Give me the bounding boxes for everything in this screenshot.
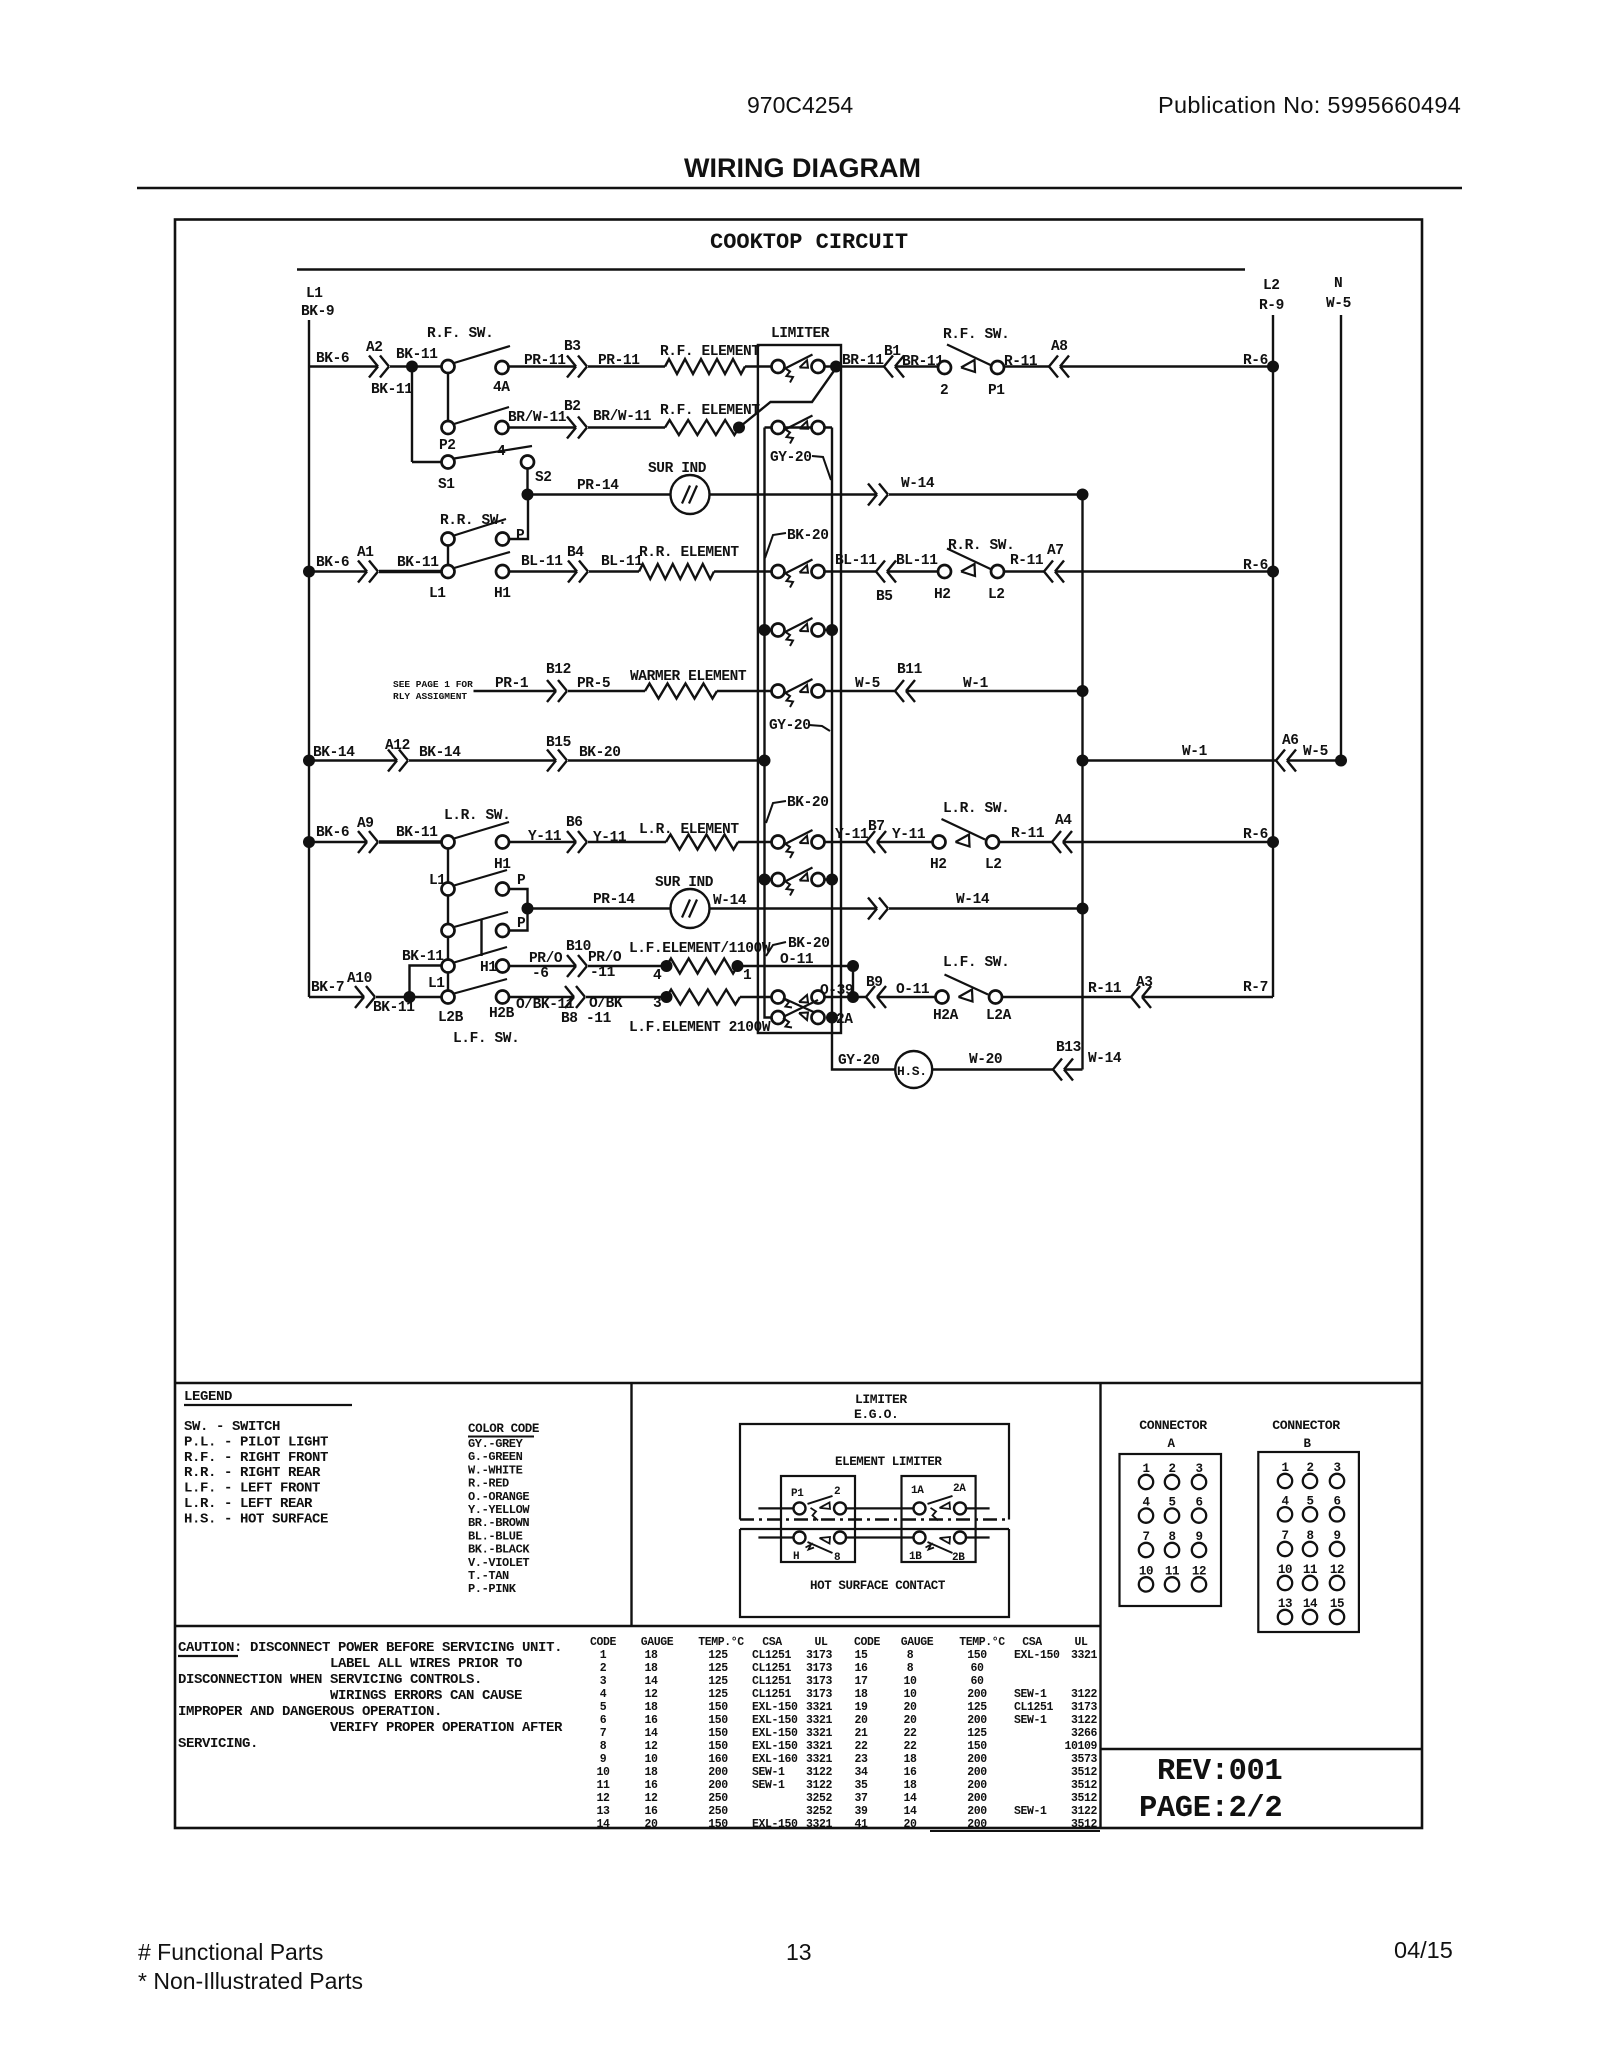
svg-text:1B: 1B bbox=[909, 1551, 922, 1563]
connector A1 bbox=[358, 561, 367, 572]
wire L1 bus bbox=[308, 320, 310, 997]
svg-text:REV:001: REV:001 bbox=[1157, 1755, 1282, 1789]
svg-text:R-11: R-11 bbox=[1010, 553, 1044, 569]
limiter contact row6 bbox=[772, 685, 785, 698]
svg-text:3512: 3512 bbox=[1071, 1818, 1098, 1831]
svg-text:125: 125 bbox=[708, 1662, 728, 1675]
svg-text:R.R. ELEMENT: R.R. ELEMENT bbox=[639, 545, 739, 561]
svg-text:8: 8 bbox=[834, 1552, 841, 1564]
svg-text:B6: B6 bbox=[566, 815, 583, 831]
node row3 / W bus bbox=[1077, 489, 1089, 501]
wire row6 bbox=[474, 690, 557, 692]
svg-text:A7: A7 bbox=[1047, 543, 1064, 559]
gang link bbox=[480, 920, 482, 956]
svg-text:3321: 3321 bbox=[1071, 1649, 1098, 1662]
wire BK-11 link bbox=[410, 966, 442, 998]
svg-text:V.-VIOLET: V.-VIOLET bbox=[468, 1556, 529, 1570]
stray rule under table right bbox=[930, 1830, 1100, 1832]
node element out bbox=[733, 422, 745, 434]
svg-text:A9: A9 bbox=[357, 816, 374, 832]
svg-text:WIRING DIAGRAM: WIRING DIAGRAM bbox=[684, 153, 921, 183]
svg-text:4: 4 bbox=[653, 968, 662, 984]
svg-text:R-7: R-7 bbox=[1243, 980, 1268, 996]
svg-text:-11: -11 bbox=[586, 1011, 612, 1027]
limiter outer box bbox=[758, 345, 841, 1033]
connector B4 bbox=[568, 561, 577, 572]
svg-text:200: 200 bbox=[967, 1779, 987, 1792]
svg-text:PR/O: PR/O bbox=[588, 950, 622, 966]
svg-text:BK-11: BK-11 bbox=[402, 949, 444, 965]
svg-text:PR-1: PR-1 bbox=[495, 676, 529, 692]
svg-text:41: 41 bbox=[854, 1818, 868, 1831]
svg-text:200: 200 bbox=[967, 1753, 987, 1766]
svg-text:L2: L2 bbox=[988, 587, 1005, 603]
svg-text:16: 16 bbox=[644, 1805, 658, 1818]
svg-text:BK-14: BK-14 bbox=[419, 745, 461, 761]
svg-text:BK-14: BK-14 bbox=[313, 745, 355, 761]
contact 1A-2A bbox=[914, 1502, 926, 1514]
svg-text:125: 125 bbox=[967, 1701, 987, 1714]
svg-text:EXL-160: EXL-160 bbox=[752, 1753, 798, 1766]
svg-text:P.-PINK: P.-PINK bbox=[468, 1582, 517, 1596]
svg-text:R.F. ELEMENT: R.F. ELEMENT bbox=[660, 403, 760, 419]
svg-text:H1: H1 bbox=[480, 960, 497, 976]
svg-text:B: B bbox=[1303, 1437, 1311, 1451]
limiter contact row2 bbox=[772, 421, 785, 434]
svg-text:3122: 3122 bbox=[806, 1766, 833, 1779]
svg-text:BK-9: BK-9 bbox=[301, 304, 334, 320]
wire L2 bus bbox=[1272, 315, 1274, 997]
connector A2 bbox=[369, 356, 378, 367]
svg-text:R.-RED: R.-RED bbox=[468, 1477, 509, 1491]
limiter inner top edge bbox=[765, 426, 833, 428]
limiter contact row9 bbox=[772, 873, 785, 886]
svg-text:BK-20: BK-20 bbox=[579, 745, 621, 761]
svg-text:Y-11: Y-11 bbox=[593, 830, 627, 846]
svg-text:SEW-1: SEW-1 bbox=[752, 1779, 785, 1792]
svg-text:13: 13 bbox=[596, 1805, 610, 1818]
svg-text:BK-20: BK-20 bbox=[787, 528, 829, 544]
wire N bus bbox=[1340, 315, 1342, 760]
svg-text:1: 1 bbox=[743, 968, 752, 984]
svg-text:R-6: R-6 bbox=[1243, 827, 1268, 843]
svg-text:3512: 3512 bbox=[1071, 1766, 1098, 1779]
svg-text:P.L. - PILOT LIGHT: P.L. - PILOT LIGHT bbox=[184, 1434, 328, 1450]
svg-text:200: 200 bbox=[708, 1766, 728, 1779]
svg-text:13: 13 bbox=[786, 1939, 812, 1965]
svg-text:60: 60 bbox=[970, 1675, 984, 1688]
connector A12 bbox=[388, 750, 397, 761]
wire row2 bbox=[509, 426, 576, 428]
svg-text:R-11: R-11 bbox=[1011, 826, 1045, 842]
svg-text:17: 17 bbox=[854, 1675, 868, 1688]
svg-text:R-6: R-6 bbox=[1243, 558, 1268, 574]
svg-text:GAUGE: GAUGE bbox=[641, 1636, 674, 1649]
svg-text:# Functional Parts: # Functional Parts bbox=[138, 1939, 323, 1965]
svg-text:P1: P1 bbox=[988, 383, 1005, 399]
svg-text:18: 18 bbox=[644, 1701, 658, 1714]
svg-text:SEW-1: SEW-1 bbox=[1014, 1688, 1047, 1701]
svg-text:150: 150 bbox=[708, 1818, 728, 1831]
switch L.F. SW. pole2 bbox=[447, 972, 449, 991]
svg-text:-6: -6 bbox=[532, 966, 549, 982]
svg-text:PR-14: PR-14 bbox=[593, 892, 635, 908]
svg-text:LEGEND: LEGEND bbox=[184, 1389, 232, 1405]
node row7 / N bus bbox=[1335, 755, 1347, 767]
connector B12 bbox=[547, 680, 556, 691]
svg-text:B4: B4 bbox=[567, 545, 584, 561]
svg-text:39: 39 bbox=[854, 1805, 868, 1818]
svg-text:O.-ORANGE: O.-ORANGE bbox=[468, 1490, 529, 1504]
node limiter out row1 bbox=[830, 361, 842, 373]
limiter contact row5 bbox=[772, 624, 785, 637]
svg-text:R-6: R-6 bbox=[1243, 353, 1268, 369]
svg-text:200: 200 bbox=[967, 1766, 987, 1779]
wire W bus bbox=[1081, 495, 1083, 1070]
limiter contact row4 bbox=[772, 565, 785, 578]
svg-text:GY-20: GY-20 bbox=[770, 450, 812, 466]
svg-text:PR-11: PR-11 bbox=[598, 353, 640, 369]
node row1 / L2 bbox=[1267, 361, 1279, 373]
svg-text:CODE: CODE bbox=[854, 1636, 881, 1649]
svg-text:LIMITER: LIMITER bbox=[855, 1392, 907, 1407]
svg-text:H2B: H2B bbox=[489, 1006, 515, 1022]
svg-text:SUR IND: SUR IND bbox=[648, 461, 707, 477]
connector W-14 bbox=[868, 484, 877, 495]
svg-text:BL-11: BL-11 bbox=[601, 554, 643, 570]
svg-text:H2: H2 bbox=[930, 857, 947, 873]
svg-text:160: 160 bbox=[708, 1753, 728, 1766]
node tap row12 bbox=[847, 991, 859, 1003]
svg-text:15: 15 bbox=[854, 1649, 868, 1662]
svg-text:Y.-YELLOW: Y.-YELLOW bbox=[468, 1503, 530, 1517]
svg-text:150: 150 bbox=[708, 1714, 728, 1727]
svg-text:COOKTOP CIRCUIT: COOKTOP CIRCUIT bbox=[710, 230, 908, 255]
svg-text:H: H bbox=[793, 1551, 799, 1563]
wire row7 left bbox=[309, 759, 397, 761]
svg-text:O-11: O-11 bbox=[896, 982, 930, 998]
svg-text:3252: 3252 bbox=[806, 1805, 833, 1818]
svg-text:14: 14 bbox=[903, 1792, 917, 1805]
svg-text:R.F. SW.: R.F. SW. bbox=[943, 327, 1009, 343]
connector B13 bbox=[1053, 1059, 1062, 1070]
svg-text:200: 200 bbox=[708, 1779, 728, 1792]
svg-text:E.G.O.: E.G.O. bbox=[854, 1407, 898, 1422]
svg-text:12: 12 bbox=[644, 1740, 658, 1753]
svg-text:16: 16 bbox=[903, 1766, 917, 1779]
svg-text:250: 250 bbox=[708, 1805, 728, 1818]
svg-text:SEW-1: SEW-1 bbox=[1014, 1805, 1047, 1818]
svg-text:L.F. SW.: L.F. SW. bbox=[943, 955, 1009, 971]
connector A4 bbox=[1052, 831, 1061, 842]
svg-text:EXL-150: EXL-150 bbox=[752, 1701, 798, 1714]
svg-text:250: 250 bbox=[708, 1792, 728, 1805]
connector B3 bbox=[567, 356, 576, 367]
svg-text:B7: B7 bbox=[868, 819, 885, 835]
svg-text:BL-11: BL-11 bbox=[521, 554, 563, 570]
svg-text:B13: B13 bbox=[1056, 1040, 1081, 1056]
node BK-11 row12 bbox=[404, 991, 416, 1003]
svg-text:W.-WHITE: W.-WHITE bbox=[468, 1463, 523, 1477]
svg-text:Y-11: Y-11 bbox=[528, 829, 562, 845]
svg-text:H.S.: H.S. bbox=[897, 1064, 927, 1079]
svg-text:BK-11: BK-11 bbox=[371, 382, 413, 398]
svg-text:150: 150 bbox=[708, 1701, 728, 1714]
switch R.F. SW. pole2 bbox=[442, 421, 455, 434]
svg-text:W-5: W-5 bbox=[855, 676, 880, 692]
svg-text:G.-GREEN: G.-GREEN bbox=[468, 1450, 523, 1464]
divider middle/right bbox=[1099, 1383, 1101, 1828]
wire row5 bbox=[765, 629, 772, 631]
svg-text:14: 14 bbox=[903, 1805, 917, 1818]
wire row3 bbox=[528, 493, 671, 495]
switch pole3 bbox=[447, 896, 449, 925]
svg-text:EXL-150: EXL-150 bbox=[752, 1818, 798, 1831]
connector W-14 row10 bbox=[868, 898, 877, 909]
svg-text:R-9: R-9 bbox=[1259, 298, 1284, 314]
svg-text:3573: 3573 bbox=[1071, 1753, 1098, 1766]
svg-text:18: 18 bbox=[854, 1688, 868, 1701]
svg-text:CL1251: CL1251 bbox=[752, 1688, 792, 1701]
contact H-8 bbox=[794, 1532, 806, 1544]
contact P1-2 bbox=[794, 1502, 806, 1514]
svg-text:W-14: W-14 bbox=[713, 893, 747, 909]
svg-text:B15: B15 bbox=[546, 735, 571, 751]
node row6 / W bus bbox=[1077, 685, 1089, 697]
svg-text:Y-11: Y-11 bbox=[835, 827, 869, 843]
connector B9 bbox=[866, 986, 875, 997]
svg-text:L2B: L2B bbox=[438, 1010, 464, 1026]
svg-text:GAUGE: GAUGE bbox=[901, 1636, 934, 1649]
svg-text:W-14: W-14 bbox=[956, 892, 990, 908]
limiter contact row8 bbox=[772, 836, 785, 849]
svg-text:A1: A1 bbox=[357, 545, 374, 561]
connector A8 bbox=[1049, 356, 1058, 367]
svg-text:10109: 10109 bbox=[1064, 1740, 1097, 1753]
svg-text:2: 2 bbox=[834, 1486, 840, 1498]
svg-text:3321: 3321 bbox=[806, 1740, 833, 1753]
svg-text:200: 200 bbox=[967, 1714, 987, 1727]
svg-text:WIRINGS ERRORS CAN CAUSE: WIRINGS ERRORS CAN CAUSE bbox=[330, 1688, 522, 1704]
wire diagonal to row1 node bbox=[739, 368, 836, 428]
svg-text:ELEMENT LIMITER: ELEMENT LIMITER bbox=[835, 1455, 942, 1469]
connector B5 bbox=[876, 561, 885, 572]
svg-text:P2: P2 bbox=[439, 438, 456, 454]
limiter contact row12a bbox=[772, 991, 785, 1004]
svg-text:R.F. SW.: R.F. SW. bbox=[427, 326, 493, 342]
svg-text:BK-7: BK-7 bbox=[311, 980, 344, 996]
svg-text:B5: B5 bbox=[876, 589, 893, 605]
svg-text:L1: L1 bbox=[429, 586, 446, 602]
svg-text:18: 18 bbox=[903, 1753, 917, 1766]
svg-text:B8: B8 bbox=[561, 1011, 578, 1027]
svg-text:4: 4 bbox=[600, 1688, 607, 1701]
svg-text:150: 150 bbox=[708, 1740, 728, 1753]
svg-text:16: 16 bbox=[644, 1714, 658, 1727]
svg-text:CSA: CSA bbox=[762, 1636, 782, 1649]
svg-text:BK-20: BK-20 bbox=[788, 936, 830, 952]
svg-text:H2A: H2A bbox=[933, 1008, 959, 1024]
svg-text:3122: 3122 bbox=[1071, 1714, 1098, 1727]
node row8 / L2 bbox=[1267, 836, 1279, 848]
svg-text:CSA: CSA bbox=[1022, 1636, 1042, 1649]
svg-text:200: 200 bbox=[967, 1818, 987, 1831]
divider legend/middle bbox=[630, 1383, 632, 1626]
node BK-11 junction bbox=[406, 361, 418, 373]
svg-text:8: 8 bbox=[600, 1740, 607, 1753]
svg-text:GY.-GREY: GY.-GREY bbox=[468, 1437, 524, 1451]
svg-text:P: P bbox=[516, 528, 525, 544]
connector B11 bbox=[895, 680, 904, 691]
svg-text:L.R. SW.: L.R. SW. bbox=[444, 808, 510, 824]
svg-text:20: 20 bbox=[854, 1714, 868, 1727]
svg-text:W-1: W-1 bbox=[963, 676, 989, 692]
svg-text:18: 18 bbox=[644, 1766, 658, 1779]
svg-text:CODE: CODE bbox=[590, 1636, 617, 1649]
svg-text:BR/W-11: BR/W-11 bbox=[508, 410, 567, 426]
svg-text:CL1251: CL1251 bbox=[1014, 1701, 1054, 1714]
svg-text:5: 5 bbox=[600, 1701, 607, 1714]
svg-text:UL: UL bbox=[814, 1636, 828, 1649]
wire row8 bbox=[309, 841, 367, 843]
svg-text:B2: B2 bbox=[564, 399, 581, 415]
svg-text:A6: A6 bbox=[1282, 733, 1299, 749]
svg-text:BL-11: BL-11 bbox=[835, 553, 877, 569]
wire row4 bbox=[309, 570, 367, 572]
svg-text:R-11: R-11 bbox=[1088, 981, 1122, 997]
wire tap drop bbox=[852, 966, 854, 997]
svg-text:3173: 3173 bbox=[806, 1649, 833, 1662]
svg-text:H2: H2 bbox=[934, 587, 951, 603]
wire P to S junction bbox=[509, 498, 528, 539]
svg-text:W-14: W-14 bbox=[1088, 1051, 1122, 1067]
svg-text:B9: B9 bbox=[866, 975, 883, 991]
connector B8 bbox=[565, 986, 574, 997]
svg-text:L.F. - LEFT FRONT: L.F. - LEFT FRONT bbox=[184, 1481, 320, 1497]
svg-text:35: 35 bbox=[854, 1779, 868, 1792]
svg-text:970C4254: 970C4254 bbox=[747, 92, 853, 118]
svg-text:125: 125 bbox=[708, 1675, 728, 1688]
svg-text:12: 12 bbox=[644, 1688, 658, 1701]
svg-text:10: 10 bbox=[903, 1675, 917, 1688]
svg-text:RLY ASSIGMENT: RLY ASSIGMENT bbox=[393, 691, 467, 702]
svg-text:B3: B3 bbox=[564, 339, 581, 355]
svg-text:14: 14 bbox=[644, 1727, 658, 1740]
svg-text:34: 34 bbox=[854, 1766, 868, 1779]
connector A10 bbox=[355, 986, 364, 997]
wire S2 drop bbox=[526, 469, 528, 495]
svg-text:HOT SURFACE CONTACT: HOT SURFACE CONTACT bbox=[810, 1579, 946, 1593]
svg-text:A4: A4 bbox=[1055, 813, 1072, 829]
svg-text:BL-11: BL-11 bbox=[896, 553, 938, 569]
svg-text:W-20: W-20 bbox=[969, 1052, 1002, 1068]
svg-text:H.S. - HOT SURFACE: H.S. - HOT SURFACE bbox=[184, 1511, 328, 1527]
contact 1B-2B bbox=[914, 1532, 926, 1544]
svg-text:3173: 3173 bbox=[806, 1675, 833, 1688]
wire row7 right bbox=[1083, 759, 1277, 761]
connector B2 bbox=[567, 417, 576, 428]
connector A9 bbox=[358, 831, 367, 842]
svg-text:10: 10 bbox=[903, 1688, 917, 1701]
svg-text:S2: S2 bbox=[535, 470, 552, 486]
svg-text:2A: 2A bbox=[953, 1483, 966, 1495]
node row5 rails bbox=[759, 624, 771, 636]
svg-text:CONNECTOR: CONNECTOR bbox=[1272, 1418, 1340, 1433]
svg-text:TEMP.°C: TEMP.°C bbox=[959, 1636, 1005, 1649]
svg-text:BR/W-11: BR/W-11 bbox=[593, 409, 652, 425]
svg-text:3173: 3173 bbox=[806, 1662, 833, 1675]
svg-text:O-11: O-11 bbox=[780, 952, 814, 968]
svg-text:200: 200 bbox=[967, 1688, 987, 1701]
svg-text:P: P bbox=[517, 873, 526, 889]
svg-text:22: 22 bbox=[903, 1727, 917, 1740]
svg-text:A10: A10 bbox=[347, 971, 372, 987]
svg-text:18: 18 bbox=[644, 1649, 658, 1662]
connector B15 bbox=[547, 750, 556, 761]
svg-text:W-1: W-1 bbox=[1182, 744, 1208, 760]
svg-text:L.R. - LEFT REAR: L.R. - LEFT REAR bbox=[184, 1496, 313, 1512]
svg-text:BK-11: BK-11 bbox=[396, 825, 438, 841]
wire row10 bbox=[528, 907, 671, 909]
svg-text:PR-5: PR-5 bbox=[577, 676, 610, 692]
connector B7 bbox=[866, 831, 875, 842]
node S junction bbox=[522, 489, 534, 501]
svg-text:UL: UL bbox=[1074, 1636, 1088, 1649]
switch L.F. pole1 bbox=[447, 937, 449, 959]
svg-text:L.F.ELEMENT 2100W: L.F.ELEMENT 2100W bbox=[629, 1020, 771, 1036]
svg-text:BR-11: BR-11 bbox=[842, 353, 884, 369]
limiter inner left rail BK-20 bbox=[765, 428, 772, 1018]
svg-text:A8: A8 bbox=[1051, 339, 1068, 355]
svg-text:125: 125 bbox=[967, 1727, 987, 1740]
svg-text:3122: 3122 bbox=[806, 1779, 833, 1792]
svg-text:P: P bbox=[517, 916, 526, 932]
svg-text:GY-20: GY-20 bbox=[838, 1053, 880, 1069]
svg-text:H1: H1 bbox=[494, 586, 511, 602]
svg-text:L1: L1 bbox=[429, 873, 446, 889]
svg-text:SEE PAGE 1 FOR: SEE PAGE 1 FOR bbox=[393, 679, 473, 690]
svg-text:SEW-1: SEW-1 bbox=[1014, 1714, 1047, 1727]
svg-text:P1: P1 bbox=[791, 1488, 804, 1500]
svg-text:2: 2 bbox=[940, 383, 948, 399]
svg-text:150: 150 bbox=[967, 1740, 987, 1753]
switch L.R. pole2 bbox=[447, 849, 449, 883]
svg-text:21: 21 bbox=[854, 1727, 868, 1740]
svg-text:SW. - SWITCH: SW. - SWITCH bbox=[184, 1419, 280, 1435]
svg-text:-11: -11 bbox=[590, 965, 616, 981]
svg-text:60: 60 bbox=[970, 1662, 984, 1675]
svg-text:PR-14: PR-14 bbox=[577, 478, 619, 494]
connector B6 bbox=[567, 831, 576, 842]
svg-text:LABEL ALL WIRES PRIOR TO: LABEL ALL WIRES PRIOR TO bbox=[330, 1656, 522, 1672]
svg-text:SERVICING.: SERVICING. bbox=[178, 1736, 258, 1752]
svg-text:* Non-Illustrated Parts: * Non-Illustrated Parts bbox=[138, 1968, 363, 1994]
svg-text:BL.-BLUE: BL.-BLUE bbox=[468, 1529, 523, 1543]
svg-text:2: 2 bbox=[600, 1662, 607, 1675]
svg-text:3321: 3321 bbox=[806, 1701, 833, 1714]
svg-text:Y-11: Y-11 bbox=[892, 827, 926, 843]
svg-text:SEW-1: SEW-1 bbox=[752, 1766, 785, 1779]
svg-text:GY-20: GY-20 bbox=[769, 718, 811, 734]
svg-text:3321: 3321 bbox=[806, 1714, 833, 1727]
svg-text:125: 125 bbox=[708, 1649, 728, 1662]
svg-text:A2: A2 bbox=[366, 340, 383, 356]
svg-text:T.-TAN: T.-TAN bbox=[468, 1569, 509, 1583]
svg-text:BK.-BLACK: BK.-BLACK bbox=[468, 1543, 530, 1557]
svg-text:3122: 3122 bbox=[1071, 1688, 1098, 1701]
svg-text:11: 11 bbox=[596, 1779, 610, 1792]
connector A3 bbox=[1131, 986, 1140, 997]
